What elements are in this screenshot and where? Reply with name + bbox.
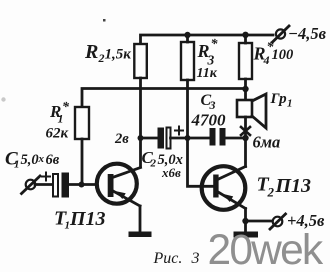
watermark 20wek	[208, 227, 324, 272]
wire: T2 emitter down	[244, 209, 247, 232]
symbol: current break point (6ма)	[241, 127, 250, 135]
transistor T1 П13	[97, 164, 141, 206]
wire: R4 bottom stub	[244, 79, 247, 89]
svg-text:R1*: R1*	[49, 100, 70, 126]
svg-text:20wek: 20wek	[208, 227, 324, 272]
svg-text:−4,5в: −4,5в	[288, 24, 327, 43]
svg-text:R4*100: R4*100	[253, 40, 294, 67]
svg-text:11к: 11к	[197, 66, 218, 81]
label: T2 designator	[257, 174, 312, 200]
svg-text:х6в: х6в	[161, 165, 181, 180]
wire: emitter node to output terminal	[246, 220, 272, 223]
label: Рис. 3 caption	[153, 250, 200, 267]
label: R2 value	[84, 41, 131, 65]
resistor R1	[75, 107, 89, 139]
label: C2 value line 2	[161, 165, 181, 180]
label: R3 designator	[197, 37, 219, 68]
terminal -4,5в	[273, 26, 290, 42]
node: C3 / T2 collector / speaker junction	[242, 135, 248, 141]
svg-text:Т2П13: Т2П13	[257, 174, 312, 200]
wire: T2 collector riser	[244, 138, 247, 167]
speaker Гр1	[237, 94, 266, 128]
label: T1 designator	[54, 208, 106, 232]
node: R4 / speaker / bias rail junction	[242, 86, 248, 92]
svg-text:2в: 2в	[114, 131, 129, 147]
wire: C2 to C3	[171, 137, 211, 140]
label: R3 value	[197, 66, 218, 81]
svg-text:C15,0х6в: C15,0х6в	[5, 149, 60, 171]
wire: speaker bottom	[244, 117, 247, 138]
wire: R4 top stub	[244, 35, 247, 43]
wire: R2 bottom to T1 collector riser	[139, 78, 142, 167]
node: T1 collector / C2 junction	[138, 135, 144, 141]
label: Гр1 speaker	[270, 91, 293, 110]
label: R1 designator	[49, 100, 70, 126]
node: top rail / R3 junction	[184, 32, 190, 38]
wire: node to speaker	[244, 89, 247, 100]
label: -4,5в	[288, 24, 327, 43]
svg-text:62к: 62к	[46, 126, 69, 142]
wire: C1 to T1 base	[69, 183, 96, 186]
node: top rail / R4 junction	[242, 32, 248, 38]
svg-text:C3: C3	[201, 92, 216, 112]
svg-text:R3*: R3*	[197, 37, 219, 68]
capacitor C1	[53, 173, 69, 198]
label: C2 designator and value	[142, 148, 183, 170]
label: +4,5в	[287, 211, 325, 230]
wire: T2 base lead	[188, 138, 214, 186]
label: C2 plus sign	[175, 127, 183, 135]
label: C1 plus sign	[42, 173, 50, 181]
transistor T2 П13	[202, 166, 246, 210]
terminal: input	[22, 176, 41, 194]
ground: T2 emitter	[234, 232, 259, 238]
terminal +4,5в	[270, 214, 286, 229]
wire: R1 bottom to T1 base node	[81, 139, 84, 185]
wire: feedback bias rail (R1 top to R4 bottom node)	[82, 89, 246, 108]
svg-text:4700: 4700	[191, 111, 227, 130]
speck artifact left	[1, 97, 5, 101]
capacitor C3	[210, 128, 226, 146]
wire: R3 top stub	[186, 35, 189, 42]
label: C3 designator	[201, 92, 216, 112]
node: C2 / C3 / T2 base junction	[185, 135, 191, 141]
label: 2в collector voltage	[114, 131, 129, 147]
wire: C3 to T2 collector node	[226, 137, 246, 140]
label: R1 value	[46, 126, 69, 142]
node: T1 base / R1 junction	[79, 182, 85, 188]
label: C3 value	[191, 111, 227, 130]
resistor R3	[181, 42, 194, 80]
wire: T1 emitter to ground	[139, 206, 142, 231]
ground: T1 emitter	[129, 232, 152, 238]
label: C1 designator and value	[5, 149, 60, 171]
label: R4 designator and value	[253, 40, 294, 67]
svg-text:Т1П13: Т1П13	[54, 208, 106, 232]
node: T2 emitter / output junction	[242, 218, 248, 224]
wire: top supply rail	[141, 35, 274, 44]
svg-text:R21,5к: R21,5к	[84, 41, 131, 65]
resistor R2	[134, 44, 147, 78]
wire: T1 collector to C2	[141, 137, 159, 140]
label: 6ма current	[253, 133, 281, 152]
capacitor C2	[158, 128, 171, 149]
svg-text:6ма: 6ма	[253, 133, 281, 152]
resistor R4	[239, 43, 252, 79]
wire: input terminal to C1	[35, 183, 53, 186]
svg-text:Рис.3: Рис.3	[153, 250, 200, 267]
speck artifact	[103, 19, 106, 22]
svg-text:Гр1: Гр1	[270, 91, 293, 110]
wire: R3 bottom to T2 base node	[186, 80, 189, 138]
